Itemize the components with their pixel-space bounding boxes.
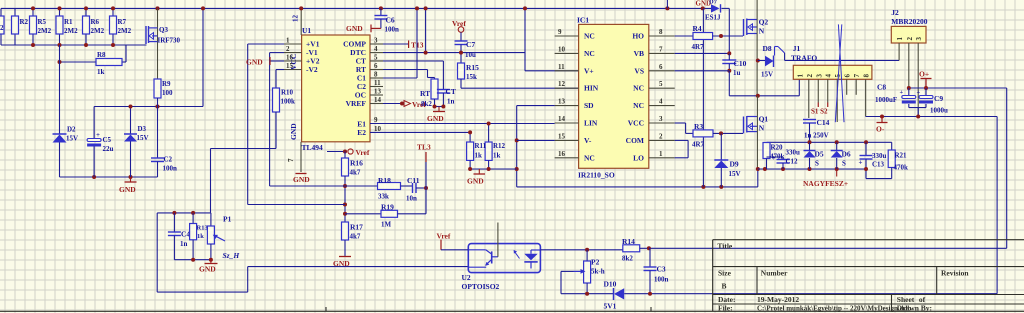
svg-text:15V: 15V — [137, 134, 149, 142]
svg-text:7: 7 — [853, 74, 861, 78]
svg-text:CT: CT — [446, 87, 456, 96]
svg-text:TRAFO: TRAFO — [791, 54, 817, 63]
svg-text:1k: 1k — [197, 233, 204, 240]
svg-text:R16: R16 — [350, 159, 363, 168]
svg-text:4k7: 4k7 — [350, 233, 361, 241]
svg-text:C13: C13 — [872, 161, 885, 169]
svg-text:16: 16 — [558, 150, 566, 158]
svg-text:19-May-2012: 19-May-2012 — [757, 295, 799, 304]
svg-text:12: 12 — [292, 15, 300, 23]
svg-text:GND: GND — [199, 265, 216, 274]
svg-text:R3: R3 — [694, 122, 703, 131]
svg-text:R20: R20 — [771, 144, 784, 152]
svg-text:R15: R15 — [466, 63, 479, 72]
svg-text:D2: D2 — [67, 126, 76, 134]
svg-text:4k7: 4k7 — [350, 169, 361, 177]
svg-text:4R7: 4R7 — [692, 141, 705, 149]
svg-text:C14: C14 — [817, 118, 830, 127]
svg-text:B: B — [722, 282, 727, 291]
svg-text:10: 10 — [558, 45, 566, 53]
svg-text:NC: NC — [584, 32, 595, 41]
svg-text:3: 3 — [815, 74, 823, 78]
svg-text:2: 2 — [906, 37, 914, 41]
svg-text:7: 7 — [287, 158, 295, 162]
svg-text:C11: C11 — [407, 176, 420, 185]
svg-text:14: 14 — [558, 115, 566, 123]
svg-text:11: 11 — [374, 79, 381, 87]
svg-text:C2: C2 — [164, 156, 173, 164]
svg-text:IR2110_SO: IR2110_SO — [578, 171, 615, 180]
svg-text:+: + — [900, 89, 904, 96]
svg-text:8: 8 — [863, 74, 871, 78]
svg-text:6: 6 — [844, 74, 852, 78]
svg-text:-V2: -V2 — [306, 65, 318, 74]
svg-text:R9: R9 — [162, 80, 171, 88]
svg-text:GND: GND — [346, 24, 363, 33]
svg-text:15V: 15V — [66, 135, 78, 143]
svg-text:+: + — [96, 131, 100, 139]
svg-text:100n: 100n — [163, 165, 178, 173]
svg-text:VREF: VREF — [346, 99, 367, 108]
svg-text:D10: D10 — [604, 280, 617, 289]
svg-text:4: 4 — [374, 45, 378, 53]
svg-text:D9: D9 — [730, 160, 739, 169]
svg-text:1u: 1u — [733, 69, 741, 77]
svg-text:D5: D5 — [815, 150, 824, 159]
svg-text:1: 1 — [896, 37, 904, 41]
svg-text:470k: 470k — [894, 164, 909, 172]
svg-text:HO: HO — [632, 32, 644, 41]
svg-text:R21: R21 — [895, 152, 908, 160]
svg-text:1n 250V: 1n 250V — [804, 132, 829, 140]
svg-text:5V1: 5V1 — [604, 302, 617, 311]
svg-text:1M: 1M — [381, 221, 392, 229]
svg-text:6: 6 — [659, 63, 663, 71]
svg-text:C5: C5 — [103, 136, 112, 144]
svg-text:2: 2 — [659, 132, 663, 140]
svg-text:R18: R18 — [378, 176, 391, 185]
svg-text:Q2: Q2 — [759, 18, 769, 27]
svg-text:Vref: Vref — [437, 232, 451, 241]
svg-text:2M2: 2M2 — [64, 27, 78, 35]
svg-text:15k: 15k — [466, 73, 477, 81]
svg-text:U2: U2 — [462, 273, 471, 282]
svg-text:33k: 33k — [378, 193, 389, 201]
svg-text:O+: O+ — [919, 70, 929, 79]
svg-text:LO: LO — [633, 153, 644, 162]
svg-text:15: 15 — [286, 62, 294, 70]
svg-text:Vref: Vref — [356, 148, 370, 157]
svg-text:2: 2 — [806, 74, 814, 78]
svg-text:GND: GND — [289, 123, 298, 140]
svg-text:10: 10 — [374, 125, 382, 133]
svg-text:6: 6 — [374, 62, 378, 70]
svg-text:4R7: 4R7 — [692, 43, 705, 51]
svg-text:GND: GND — [293, 175, 310, 184]
svg-text:IRF730: IRF730 — [158, 37, 181, 45]
svg-text:16: 16 — [286, 54, 294, 62]
svg-text:13: 13 — [558, 98, 566, 106]
svg-text:3: 3 — [374, 37, 378, 45]
svg-text:100: 100 — [162, 89, 173, 97]
svg-text:4: 4 — [659, 98, 663, 106]
svg-text:HIN: HIN — [584, 84, 599, 93]
svg-text:NAGYFESZ+: NAGYFESZ+ — [803, 179, 848, 188]
svg-text:ES1J: ES1J — [705, 14, 721, 22]
svg-text:O-: O- — [876, 125, 885, 134]
svg-text:15V: 15V — [761, 71, 773, 79]
svg-text:5: 5 — [659, 80, 663, 88]
svg-text:C12: C12 — [786, 158, 799, 166]
svg-text:COM: COM — [626, 136, 644, 145]
svg-text:100k: 100k — [281, 98, 296, 106]
svg-text:C9: C9 — [934, 94, 943, 103]
svg-text:V-: V- — [584, 136, 592, 145]
svg-text:1k: 1k — [493, 152, 501, 160]
svg-text:MBR20200: MBR20200 — [891, 17, 927, 26]
svg-text:Q3: Q3 — [159, 26, 168, 34]
svg-text:N: N — [759, 27, 765, 36]
svg-text:S1 S2: S1 S2 — [811, 108, 828, 116]
svg-text:12: 12 — [558, 80, 566, 88]
svg-text:N: N — [759, 124, 765, 133]
svg-text:1k: 1k — [475, 152, 483, 160]
svg-text:GND: GND — [427, 114, 444, 123]
svg-text:1000uF: 1000uF — [875, 96, 897, 104]
svg-text:D8: D8 — [763, 44, 772, 53]
svg-text:10n: 10n — [406, 195, 417, 203]
svg-text:330u: 330u — [786, 149, 801, 157]
svg-text:1: 1 — [659, 150, 663, 158]
svg-text:R13: R13 — [197, 225, 209, 232]
svg-text:C6: C6 — [386, 16, 395, 25]
svg-text:R1: R1 — [64, 18, 73, 26]
svg-text:OPTOISO2: OPTOISO2 — [462, 282, 500, 291]
svg-text:GND: GND — [467, 177, 484, 186]
svg-text:R11: R11 — [475, 142, 487, 150]
svg-text:+: + — [917, 89, 921, 96]
svg-text:10u: 10u — [465, 51, 476, 59]
svg-text:C8: C8 — [877, 83, 886, 92]
svg-text:15: 15 — [558, 132, 566, 140]
svg-text:TL3: TL3 — [417, 143, 431, 152]
svg-text:2M2: 2M2 — [38, 27, 52, 35]
svg-text:5: 5 — [374, 54, 378, 62]
svg-text:Vref: Vref — [452, 19, 466, 28]
svg-text:TL494: TL494 — [302, 143, 324, 152]
svg-text:Size: Size — [718, 269, 732, 278]
svg-text:8: 8 — [659, 28, 663, 36]
svg-text:VCC: VCC — [628, 119, 644, 128]
svg-text:C10: C10 — [734, 59, 747, 68]
svg-text:R12: R12 — [493, 142, 506, 150]
svg-text:3: 3 — [915, 37, 923, 41]
svg-text:R5: R5 — [38, 18, 47, 26]
svg-text:IC1: IC1 — [577, 16, 589, 25]
svg-text:R8: R8 — [97, 51, 106, 59]
svg-text:Title: Title — [717, 242, 733, 251]
svg-text:NC: NC — [633, 84, 644, 93]
svg-text:R17: R17 — [350, 223, 363, 232]
svg-text:V+: V+ — [584, 66, 594, 75]
svg-text:P1: P1 — [223, 215, 232, 224]
svg-text:GND: GND — [119, 185, 136, 194]
svg-text:9: 9 — [374, 116, 378, 124]
svg-text:LIN: LIN — [584, 119, 598, 128]
svg-text:11: 11 — [558, 63, 565, 71]
svg-text:1k: 1k — [97, 68, 105, 76]
svg-text:5k-h: 5k-h — [591, 268, 605, 276]
svg-text:2M2: 2M2 — [91, 27, 105, 35]
svg-text:E2: E2 — [357, 128, 366, 137]
svg-text:D7: D7 — [709, 0, 718, 6]
svg-text:R6: R6 — [91, 18, 100, 26]
svg-text:J2: J2 — [891, 8, 899, 17]
svg-text:C7: C7 — [466, 40, 475, 49]
svg-text:330u: 330u — [872, 152, 887, 160]
svg-text:C3: C3 — [657, 265, 666, 274]
svg-text:GND: GND — [246, 58, 263, 67]
svg-text:RT: RT — [420, 89, 430, 98]
svg-text:NC: NC — [633, 101, 644, 110]
svg-text:2M2: 2M2 — [118, 27, 132, 35]
svg-text:S: S — [815, 160, 819, 168]
svg-text:S: S — [842, 160, 846, 168]
svg-text:D3: D3 — [138, 125, 147, 133]
svg-text:1n: 1n — [180, 240, 188, 248]
svg-text:J1: J1 — [793, 44, 801, 53]
svg-text:VS: VS — [634, 66, 644, 75]
svg-text:VB: VB — [634, 49, 644, 58]
svg-text:4: 4 — [825, 74, 833, 78]
svg-text:R10: R10 — [281, 89, 294, 97]
svg-text:3: 3 — [659, 115, 663, 123]
svg-text:R14: R14 — [622, 237, 635, 246]
svg-text:2: 2 — [286, 45, 290, 53]
svg-text:+: + — [859, 159, 863, 167]
svg-text:1n: 1n — [447, 98, 455, 106]
svg-text:15V: 15V — [729, 170, 741, 178]
svg-text:Q1: Q1 — [759, 115, 769, 124]
svg-text:1000u: 1000u — [930, 107, 948, 115]
svg-text:14: 14 — [374, 96, 382, 104]
svg-text:R7: R7 — [118, 18, 127, 26]
svg-text:R4: R4 — [693, 24, 702, 33]
svg-text:8k2: 8k2 — [421, 100, 432, 108]
svg-text:Revision: Revision — [941, 269, 969, 278]
svg-text:SD: SD — [584, 101, 594, 110]
svg-text:Number: Number — [761, 269, 788, 278]
svg-text:9: 9 — [558, 28, 562, 36]
svg-text:D6: D6 — [842, 150, 851, 159]
svg-text:22u: 22u — [103, 145, 114, 153]
svg-text:1: 1 — [796, 74, 804, 78]
svg-text:100n: 100n — [385, 26, 400, 34]
svg-text:8: 8 — [374, 71, 378, 79]
svg-text:8k2: 8k2 — [622, 255, 633, 263]
svg-text:Sz_H: Sz_H — [223, 251, 241, 260]
svg-text:2: 2 — [0, 24, 4, 32]
svg-text:NC: NC — [584, 49, 595, 58]
svg-text:NC: NC — [584, 153, 595, 162]
svg-text:13: 13 — [374, 88, 382, 96]
svg-text:1: 1 — [286, 37, 290, 45]
svg-text:U1: U1 — [302, 26, 311, 35]
svg-text:P2: P2 — [591, 258, 600, 267]
svg-text:R2: R2 — [20, 18, 29, 26]
svg-text:100n: 100n — [654, 276, 669, 284]
svg-text:7: 7 — [659, 45, 663, 53]
svg-text:R19: R19 — [381, 203, 394, 212]
svg-text:+: + — [772, 154, 776, 162]
